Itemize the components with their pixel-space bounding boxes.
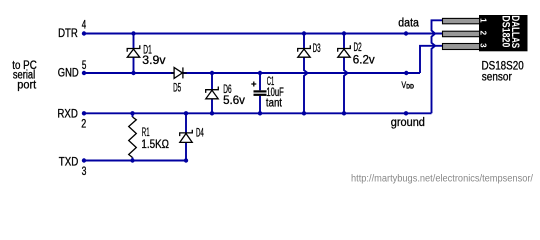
svg-text:DTR: DTR [58, 28, 78, 40]
svg-text:TXD: TXD [59, 157, 79, 169]
svg-text:RXD: RXD [57, 108, 78, 120]
svg-text:5: 5 [82, 60, 87, 72]
svg-text:3.9v: 3.9v [142, 55, 165, 67]
svg-text:2: 2 [81, 118, 86, 130]
svg-text:D5: D5 [173, 82, 181, 94]
svg-text:4: 4 [82, 20, 87, 32]
svg-text:GND: GND [58, 67, 79, 79]
svg-text:D4: D4 [196, 127, 204, 139]
svg-text:R1: R1 [142, 127, 150, 139]
svg-text:http://martybugs.net/electroni: http://martybugs.net/electronics/tempsen… [351, 174, 533, 185]
svg-text:DD: DD [406, 84, 414, 91]
svg-text:DS1820: DS1820 [500, 15, 512, 47]
svg-text:port: port [17, 79, 37, 91]
svg-text:sensor: sensor [482, 72, 512, 84]
svg-text:D2: D2 [354, 42, 362, 54]
svg-text:tant: tant [266, 97, 283, 109]
svg-text:5.6v: 5.6v [223, 95, 245, 107]
svg-text:data: data [398, 17, 419, 29]
svg-text:D3: D3 [313, 43, 321, 55]
svg-text:1: 1 [479, 18, 488, 23]
svg-text:2: 2 [479, 31, 488, 36]
svg-text:3: 3 [479, 43, 488, 48]
svg-text:6.2v: 6.2v [353, 54, 375, 66]
svg-text:ground: ground [391, 117, 425, 129]
svg-text:1.5KΩ: 1.5KΩ [141, 139, 169, 151]
svg-text:3: 3 [82, 166, 87, 178]
